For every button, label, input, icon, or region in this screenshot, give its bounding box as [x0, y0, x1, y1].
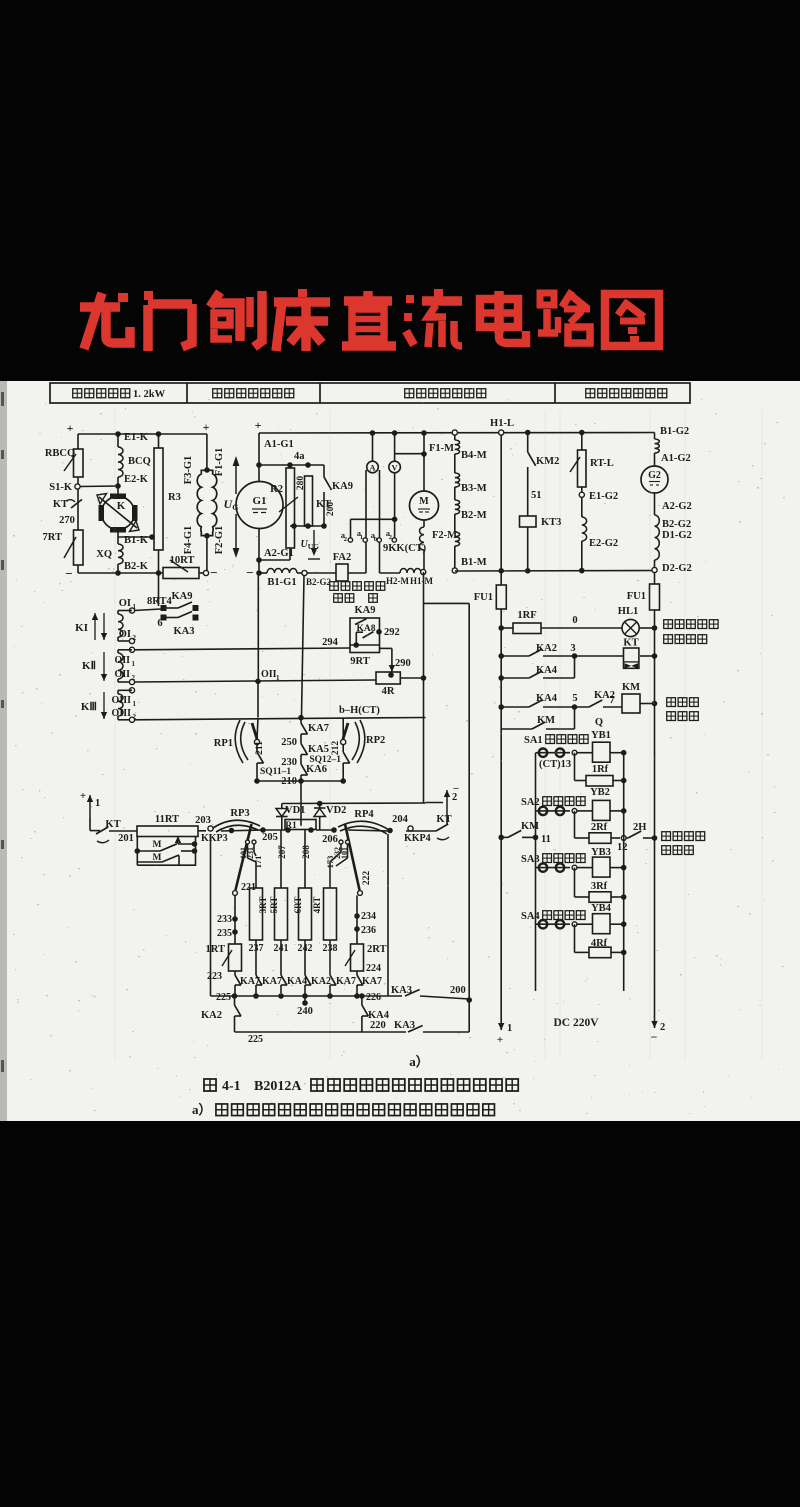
svg-text:233: 233 [217, 914, 232, 925]
svg-text:KT3: KT3 [541, 517, 561, 528]
terminal 211 [254, 739, 259, 744]
header cell label 他励直流电动机 [405, 389, 414, 398]
wire G1 top lead [258, 433, 260, 482]
svg-text:KKP3: KKP3 [201, 833, 228, 844]
svg-text:8RT4: 8RT4 [147, 596, 172, 607]
node 206 [331, 827, 337, 833]
wire KT to right bus [640, 655, 655, 657]
resistor 11RT [137, 826, 198, 837]
note 后退行程拾刀 [667, 698, 676, 707]
resistor 3RT column [255, 862, 257, 888]
svg-text:KT: KT [623, 638, 638, 649]
svg-text:KA7: KA7 [362, 976, 382, 987]
terminal arrow 2 upper [446, 790, 448, 816]
shunt resistor [365, 470, 367, 573]
svg-text:6: 6 [157, 618, 162, 629]
svg-text:5: 5 [572, 693, 577, 704]
header cell label 电机放大机1.2kW [73, 389, 82, 398]
wire 210 node down to R1 box [300, 781, 302, 826]
terminal 12 node [621, 836, 626, 841]
header cell label 并励直流发电机 [586, 389, 595, 398]
relay KT3 [520, 516, 537, 527]
wire shunt to H2-M [380, 572, 401, 574]
resistor 2Rf [574, 811, 576, 838]
svg-text:B2012A: B2012A [254, 1079, 302, 1094]
svg-text:FU1: FU1 [474, 592, 493, 603]
svg-text:KT: KT [436, 814, 451, 825]
svg-text:5RT: 5RT [269, 897, 279, 914]
svg-text:OI: OI [119, 629, 131, 640]
bypass contacts M M [136, 836, 138, 865]
svg-text:A1-G1: A1-G1 [264, 439, 294, 450]
svg-text:B1-G1: B1-G1 [267, 577, 296, 588]
svg-text:OIII: OIII [112, 708, 132, 719]
svg-text:KA2: KA2 [536, 643, 557, 654]
node 203 [198, 830, 206, 832]
row 1RF / HL1 [498, 625, 504, 631]
wire G2 column top corner [654, 433, 656, 440]
svg-text:RP2: RP2 [366, 735, 385, 746]
svg-text:E1-G2: E1-G2 [589, 491, 618, 502]
fuse FU1 right [654, 573, 656, 585]
terminal OII2 [129, 679, 134, 684]
svg-text:2: 2 [389, 534, 392, 541]
svg-text:2Rf: 2Rf [591, 822, 608, 833]
header divider 3 [554, 383, 556, 403]
inductor B1-G1 [267, 569, 297, 574]
contact KA7 col6 [357, 975, 363, 985]
wire 9RT box to 290 arrow [380, 647, 392, 649]
solenoid YB3 [577, 867, 593, 869]
svg-text:2: 2 [660, 1022, 665, 1033]
svg-text:208: 208 [301, 845, 311, 859]
wire F coil bottom [206, 536, 208, 571]
svg-text:a）: a） [409, 1054, 429, 1069]
inductor E2-G2 [581, 498, 583, 518]
svg-text:224: 224 [366, 963, 381, 974]
svg-text:B1-M: B1-M [461, 557, 487, 568]
label 电流继电器 分流器 [330, 582, 339, 591]
svg-text:VD2: VD2 [326, 805, 346, 816]
row KA2 / 3 [498, 653, 504, 659]
wire A meter to top bus [372, 433, 374, 461]
svg-text:F3-G1: F3-G1 [183, 456, 194, 485]
wire bottom row 220-225 [235, 1031, 407, 1033]
wire RP2 top [342, 718, 344, 740]
inductor XQ [118, 544, 123, 564]
svg-text:G1: G1 [252, 495, 266, 507]
svg-text:7: 7 [609, 695, 614, 706]
wire top bus to M [423, 433, 425, 491]
wire V meter down to tap node [394, 473, 396, 538]
limit switch SQ11-1 [256, 745, 258, 753]
header divider 2 [319, 383, 321, 403]
svg-text:E2-K: E2-K [124, 474, 149, 485]
wire left control bus [500, 609, 502, 1018]
svg-text:KT: KT [105, 819, 120, 830]
contact KT right timed [436, 824, 448, 831]
selector SA4 contacts [536, 923, 571, 925]
svg-text:KM: KM [521, 821, 539, 832]
wire OI1 to contact block [135, 609, 161, 611]
svg-text:270: 270 [59, 515, 75, 526]
wire OII dot down to 211 [257, 683, 259, 717]
svg-text:R3: R3 [168, 492, 181, 503]
wire KM to right bus [640, 703, 655, 705]
resistor 10RT [163, 568, 199, 579]
fuse FU1 left [496, 585, 506, 609]
svg-text:S1-K: S1-K [49, 482, 73, 493]
resistor 4Rf [574, 924, 576, 952]
branch KM2 / KT3 [525, 430, 531, 436]
svg-text:0: 0 [374, 536, 377, 543]
svg-text:OII: OII [114, 655, 130, 666]
contact KA4 [529, 671, 542, 678]
wire 204 to KT right [406, 830, 436, 832]
generator G2 [641, 466, 668, 493]
contact KM2 [528, 452, 536, 466]
terminal S1-K [75, 484, 80, 489]
node 240 [304, 996, 306, 1003]
motor field winding column B4-M B3-M B2-M B1-M [454, 435, 456, 440]
svg-text:242: 242 [298, 943, 313, 954]
svg-text:KKP4: KKP4 [404, 833, 431, 844]
svg-text:FA2: FA2 [333, 552, 351, 563]
wire 10RT to terminal [199, 572, 204, 574]
wire long vertical to 200 node [468, 603, 470, 1032]
wiper RP3 to 221 [236, 824, 252, 890]
diode VD2 [319, 804, 321, 809]
wire row 294 [135, 648, 350, 650]
svg-text:YB4: YB4 [591, 903, 612, 914]
terminal 212 [341, 739, 346, 744]
commutator selector 9KK(CT) terminals [348, 538, 352, 542]
svg-text:205: 205 [262, 832, 278, 843]
svg-text:2: 2 [133, 634, 137, 642]
wire F2-M to H1-M terminal [423, 550, 425, 570]
svg-text:RBCQ: RBCQ [45, 448, 75, 459]
inductor H2-M H1-M [400, 569, 421, 574]
resistor R2 [286, 468, 295, 548]
wire RBCQ to S1-K [77, 477, 79, 484]
svg-text:+: + [80, 790, 86, 802]
white paper / schematic panel [7, 381, 800, 1121]
svg-text:225: 225 [216, 992, 231, 1003]
resistor 4R [376, 672, 400, 684]
branch KA4 parallel [574, 656, 576, 678]
resistor 1Rf [574, 753, 576, 781]
svg-text:237: 237 [249, 943, 264, 954]
relay FA2 [336, 564, 348, 581]
wire right control bus [654, 610, 656, 1016]
svg-text:YB1: YB1 [591, 730, 611, 741]
resistor R3 [154, 448, 163, 550]
header divider 1 [186, 383, 188, 403]
svg-text:KA4: KA4 [287, 976, 307, 987]
ammeter A [367, 461, 379, 473]
svg-text:B4-M: B4-M [461, 450, 487, 461]
terminal B2-G2 [302, 570, 307, 575]
svg-text:12: 12 [617, 842, 628, 853]
resistor 2RT [351, 944, 364, 971]
svg-text:K: K [117, 500, 126, 512]
resistor 5RT column [280, 830, 282, 888]
svg-text:RP1: RP1 [214, 738, 233, 749]
wire E2-K to K machine [117, 477, 119, 496]
wire R3 to bottom bus [158, 550, 160, 573]
contact KA3 bottom [408, 1025, 423, 1032]
svg-text:1RF: 1RF [517, 610, 536, 621]
contact KA9 in G1 field [323, 465, 325, 477]
rheostat RP1 [235, 720, 243, 763]
selector SA3 contacts [536, 867, 571, 869]
wire 205 to 206 [263, 829, 285, 831]
svg-text:294: 294 [322, 637, 339, 648]
svg-text:200: 200 [326, 502, 336, 517]
wire top link y802 to terminal 2 [282, 802, 426, 805]
svg-text:RP3: RP3 [230, 808, 249, 819]
terminal OIII2 [129, 717, 134, 722]
node 233 / 235 with 1RT column [234, 895, 236, 944]
note 抬刀电磁铁控制 [662, 832, 671, 841]
resistor 1RT [229, 944, 242, 971]
svg-text:E1-K: E1-K [124, 432, 149, 443]
terminal D2-G2 [654, 560, 656, 568]
wire 206 to 204 [348, 830, 390, 831]
svg-text:SQ12–1: SQ12–1 [309, 755, 341, 765]
svg-text:F2-M: F2-M [432, 530, 457, 541]
motor M [410, 491, 439, 520]
svg-text:F1-G1: F1-G1 [214, 448, 225, 477]
svg-text:51: 51 [531, 490, 542, 501]
selector SA2 contacts [536, 810, 571, 812]
wire K to XQ [117, 530, 119, 544]
wire right outer frame [387, 834, 389, 996]
svg-text:KA7: KA7 [262, 976, 282, 987]
diode VD1 [281, 804, 283, 809]
svg-text:SA1: SA1 [524, 735, 543, 746]
adjust arrow KT on R2 [279, 497, 298, 512]
svg-text:BCQ: BCQ [128, 456, 151, 467]
contact KA7 col5 [330, 975, 336, 985]
svg-text:F1-M: F1-M [429, 443, 454, 454]
wire left outer frame [210, 834, 212, 996]
timer relay KT [624, 648, 639, 668]
rheostat RT-L [579, 430, 585, 436]
svg-text:KA3: KA3 [174, 626, 195, 637]
svg-text:290: 290 [395, 658, 411, 669]
svg-text:−: − [453, 783, 459, 795]
terminal B1-M bottom [452, 568, 457, 573]
svg-text:B2-G2: B2-G2 [662, 519, 691, 530]
wire 203-205 main [221, 830, 263, 831]
svg-text:KA4: KA4 [536, 665, 558, 676]
taps 101 231 [246, 840, 250, 844]
node R3 top [156, 431, 162, 437]
svg-text:(CT)13: (CT)13 [539, 759, 571, 770]
svg-text:VD1: VD1 [285, 805, 305, 816]
node E1-K [115, 431, 121, 437]
resistor 6RT column [304, 830, 306, 888]
terminal E1-G2 [579, 492, 584, 497]
svg-text:222: 222 [362, 871, 372, 886]
connector KKP3 [208, 826, 213, 831]
wire branch y603 to long vertical [424, 602, 470, 604]
wire top bus of amplifier [78, 433, 207, 435]
taps 232 101 [339, 840, 343, 844]
svg-text:9RT: 9RT [350, 656, 369, 667]
svg-text:KA7: KA7 [336, 976, 356, 987]
svg-text:2: 2 [344, 536, 347, 543]
svg-text:F2-G1: F2-G1 [214, 526, 225, 555]
svg-text:OI: OI [119, 598, 131, 609]
svg-text:F4-G1: F4-G1 [183, 526, 194, 555]
contact KA4 row4 [529, 700, 542, 707]
svg-text:M: M [153, 840, 162, 850]
terminal H1-M [421, 569, 426, 574]
wire row OII1 to 4R [135, 680, 377, 682]
contact KA5 chain [301, 733, 308, 735]
node 234 / 236 with 2RT column [356, 895, 358, 944]
resistor 4RT column [329, 862, 331, 888]
svg-text:226: 226 [366, 992, 381, 1003]
svg-text:XQ: XQ [96, 549, 112, 560]
svg-text:KT: KT [53, 499, 68, 510]
svg-text:+: + [497, 1034, 503, 1046]
svg-text:B2-K: B2-K [124, 561, 149, 572]
svg-text:B3-M: B3-M [461, 483, 487, 494]
svg-text:200: 200 [450, 985, 466, 996]
svg-text:4a: 4a [294, 451, 305, 462]
svg-text:A2-G2: A2-G2 [662, 501, 692, 512]
wire main top bus [259, 432, 655, 435]
wire bottom bus M section [455, 570, 655, 573]
svg-text:SA2: SA2 [521, 797, 540, 808]
svg-text:A2-G1: A2-G1 [264, 548, 294, 559]
note 电机组在工作指示灯 [664, 620, 673, 629]
red title banner text [80, 289, 659, 351]
svg-text:1RT: 1RT [206, 944, 225, 955]
terminal OI1 [129, 608, 134, 613]
svg-text:SA4: SA4 [521, 911, 540, 922]
terminal B4-M top [452, 430, 457, 435]
svg-text:1: 1 [95, 798, 100, 809]
svg-text:FU1: FU1 [627, 591, 646, 602]
resistor 1RF [513, 623, 541, 634]
svg-text:A: A [369, 463, 376, 473]
svg-text:B2-M: B2-M [461, 510, 487, 521]
rheostat RP2 [357, 720, 365, 763]
indicator lamp HL1 [622, 619, 639, 636]
svg-text:3Rf: 3Rf [591, 881, 608, 892]
rheostat arc RP4 [338, 821, 389, 830]
svg-text:V: V [392, 463, 399, 473]
resistor 280 [305, 476, 313, 526]
svg-text:OII: OII [114, 669, 130, 680]
wire KA9 to junction [323, 492, 325, 526]
paper texture artifacts [115, 410, 762, 1060]
wire K-block bottom to contact block [158, 573, 160, 606]
label A2-G2 [654, 493, 656, 515]
svg-text:H2-M: H2-M [386, 576, 409, 586]
svg-text:10RT: 10RT [170, 555, 195, 566]
contact KA7 chain [300, 718, 302, 723]
wire V junction to F1-M [395, 453, 424, 455]
wire RP block bottom [257, 780, 343, 782]
resistor R1 [285, 820, 316, 830]
svg-text:223: 223 [207, 971, 222, 982]
svg-text:KA9: KA9 [172, 591, 193, 602]
svg-text:11: 11 [541, 834, 551, 845]
svg-text:1: 1 [133, 700, 137, 708]
wire 4R to right vertical [400, 677, 423, 679]
node E2-K [115, 483, 121, 489]
svg-text:4RT: 4RT [312, 897, 322, 914]
svg-text:D2-G2: D2-G2 [662, 563, 692, 574]
svg-text:KⅡ: KⅡ [82, 660, 96, 672]
svg-text:B2-G2: B2-G2 [306, 577, 332, 587]
svg-text:H1-L: H1-L [490, 418, 514, 429]
svg-text:+: + [255, 418, 262, 432]
svg-text:RT-L: RT-L [590, 458, 614, 469]
svg-text:250: 250 [281, 737, 297, 748]
svg-text:−: − [65, 566, 72, 581]
solenoid YB4 [577, 923, 593, 925]
wire node row 225-226 [211, 995, 403, 997]
svg-text:KA2: KA2 [201, 1010, 222, 1021]
connector KKP4 [408, 826, 413, 831]
svg-text:D1-G2: D1-G2 [662, 530, 692, 541]
svg-text:KA7: KA7 [308, 723, 329, 734]
svg-text:4-1: 4-1 [222, 1079, 241, 1094]
contact KA2 col4 [305, 975, 311, 985]
svg-text:241: 241 [274, 943, 289, 954]
inductor A1-G2 top [655, 439, 660, 453]
terminal OII1 top [129, 647, 134, 652]
svg-text:SQ11–1: SQ11–1 [260, 767, 291, 777]
svg-text:−: − [210, 565, 217, 580]
svg-text:220: 220 [370, 1020, 386, 1031]
svg-text:225: 225 [248, 1034, 263, 1045]
wire bottom bus G1 section [259, 572, 267, 574]
svg-text:1: 1 [360, 534, 363, 541]
svg-text:235: 235 [217, 928, 232, 939]
supply arrow 2 - [654, 1016, 656, 1028]
svg-text:292: 292 [384, 627, 400, 638]
solenoid YB1 [577, 752, 593, 754]
wire SA ladder right rail [623, 753, 625, 991]
svg-text:KA6: KA6 [306, 764, 327, 775]
svg-text:KI: KI [75, 622, 88, 634]
rheostat arc RP3 [213, 820, 260, 828]
svg-text:+: + [203, 420, 210, 434]
svg-text:OII: OII [261, 669, 277, 680]
svg-text:11RT: 11RT [155, 814, 179, 825]
svg-text:A1-G2: A1-G2 [661, 453, 691, 464]
contact KA4 bottom [361, 996, 363, 1005]
wire SA ladder left rail [535, 753, 537, 991]
wire F coil top to + [206, 434, 208, 470]
solenoid YB2 [577, 810, 593, 812]
svg-text:240: 240 [297, 1006, 313, 1017]
svg-text:+: + [67, 421, 74, 435]
measurement arrow UG [235, 463, 237, 494]
svg-text:R2: R2 [270, 484, 283, 495]
contact KA7 col1 [235, 975, 241, 985]
svg-text:1. 2kW: 1. 2kW [133, 389, 166, 400]
wire E1-K down [117, 434, 119, 447]
terminal arrow 1 left [89, 795, 91, 818]
